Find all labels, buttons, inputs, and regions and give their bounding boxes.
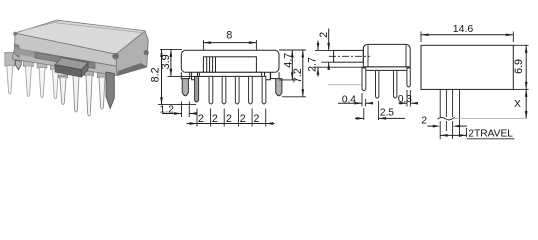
svg-text:X: X bbox=[514, 99, 521, 110]
svg-text:4.7: 4.7 bbox=[282, 53, 294, 68]
svg-text:6.9: 6.9 bbox=[513, 59, 525, 74]
svg-text:2: 2 bbox=[421, 116, 427, 127]
svg-text:2: 2 bbox=[226, 113, 232, 125]
svg-text:0.4: 0.4 bbox=[342, 95, 356, 106]
svg-text:3.9: 3.9 bbox=[160, 54, 172, 69]
svg-text:1.2: 1.2 bbox=[159, 104, 174, 115]
svg-text:2.7: 2.7 bbox=[306, 57, 318, 72]
svg-text:14.6: 14.6 bbox=[453, 23, 474, 35]
svg-text:2: 2 bbox=[240, 113, 246, 125]
svg-text:2.5: 2.5 bbox=[380, 108, 394, 119]
svg-text:2: 2 bbox=[198, 113, 204, 125]
svg-text:8.2: 8.2 bbox=[149, 67, 161, 82]
svg-text:2: 2 bbox=[212, 113, 218, 125]
svg-text:0.3: 0.3 bbox=[398, 94, 412, 105]
svg-text:2TRAVEL: 2TRAVEL bbox=[468, 128, 513, 139]
svg-text:2: 2 bbox=[318, 32, 330, 38]
svg-text:7.2: 7.2 bbox=[292, 68, 304, 83]
svg-text:8: 8 bbox=[226, 30, 232, 42]
svg-text:2: 2 bbox=[253, 113, 259, 125]
